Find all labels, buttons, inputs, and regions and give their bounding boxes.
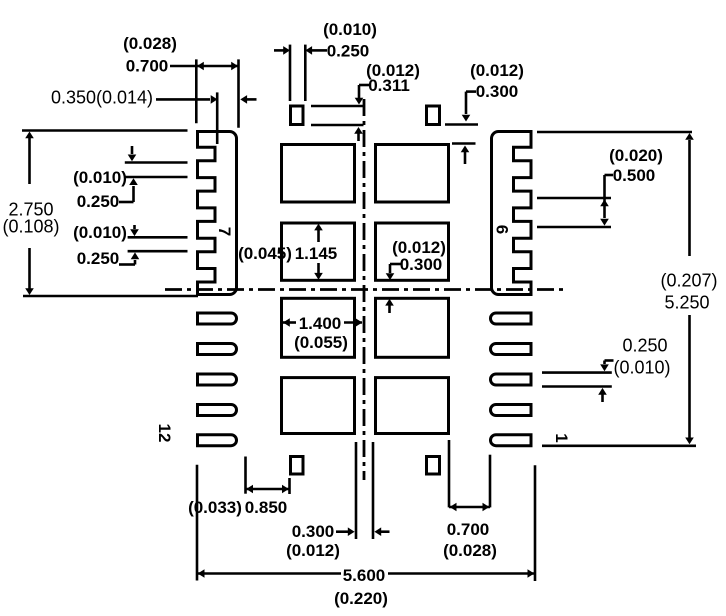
small square pad bottom-left <box>291 457 304 475</box>
svg-text:(0.010): (0.010) <box>323 20 377 39</box>
svg-text:0.300: 0.300 <box>476 82 519 101</box>
right oval pad 2 <box>491 344 532 355</box>
svg-text:(0.010): (0.010) <box>73 223 127 242</box>
center pad right row4 <box>376 378 449 434</box>
small square pad bottom-right <box>427 457 440 475</box>
svg-text:(0.108): (0.108) <box>2 216 59 236</box>
right oval pad 5 <box>491 435 532 446</box>
svg-text:0.850: 0.850 <box>245 498 288 517</box>
horizontal centerline <box>165 288 565 291</box>
left oval pad 5 <box>198 435 237 446</box>
svg-text:0.311: 0.311 <box>368 76 410 95</box>
svg-text:(0.207): (0.207) <box>660 270 717 290</box>
svg-text:1.400: 1.400 <box>299 314 342 333</box>
right comb pad pins 2-6 <box>492 132 532 295</box>
svg-text:0.700: 0.700 <box>447 520 490 539</box>
svg-text:1.145: 1.145 <box>295 244 338 263</box>
right oval pad 4 <box>491 405 532 416</box>
center pad right row1 <box>376 145 449 203</box>
svg-text:0.700: 0.700 <box>126 57 169 76</box>
svg-text:(0.055): (0.055) <box>294 333 348 352</box>
center pad left row4 <box>282 378 355 434</box>
left oval pad 1 <box>198 313 237 324</box>
center pad left row2 <box>282 223 355 280</box>
svg-text:7: 7 <box>215 227 234 236</box>
svg-text:5.600: 5.600 <box>343 566 386 585</box>
svg-text:0.300: 0.300 <box>400 255 443 274</box>
svg-text:(0.012): (0.012) <box>470 61 524 80</box>
svg-text:12: 12 <box>155 424 174 443</box>
svg-text:(0.012): (0.012) <box>286 541 340 560</box>
small square pad top-left <box>291 106 304 125</box>
svg-text:5.250: 5.250 <box>664 292 709 312</box>
left oval pad 2 <box>198 344 237 355</box>
center pad right row3 <box>376 298 449 357</box>
svg-text:0.300: 0.300 <box>292 522 335 541</box>
center pad left row3 <box>282 298 355 357</box>
svg-text:(0.045): (0.045) <box>238 244 292 263</box>
small square pad top-right <box>427 106 440 125</box>
svg-text:0.500: 0.500 <box>613 166 656 185</box>
svg-text:0.250: 0.250 <box>622 335 667 355</box>
svg-text:0.250: 0.250 <box>77 249 120 268</box>
svg-text:0.250: 0.250 <box>77 192 120 211</box>
right oval pad 1 <box>491 313 532 324</box>
left oval pad 4 <box>198 405 237 416</box>
center pad right row2 <box>376 223 449 280</box>
svg-text:(0.020): (0.020) <box>609 146 663 165</box>
svg-text:(0.010): (0.010) <box>613 357 670 377</box>
svg-text:6: 6 <box>492 225 511 234</box>
vertical centerline <box>363 99 366 480</box>
right oval pad 3 <box>491 374 532 385</box>
left oval pad 3 <box>198 374 237 385</box>
svg-text:(0.220): (0.220) <box>334 589 388 608</box>
svg-text:0.350(0.014): 0.350(0.014) <box>51 87 153 107</box>
svg-text:(0.028): (0.028) <box>443 541 497 560</box>
svg-text:(0.010): (0.010) <box>73 168 127 187</box>
svg-text:(0.028): (0.028) <box>123 34 177 53</box>
left comb pad pins 7-11 <box>198 132 237 295</box>
svg-text:1: 1 <box>552 433 571 442</box>
center pad left row1 <box>282 145 355 203</box>
svg-text:0.250: 0.250 <box>327 42 370 61</box>
